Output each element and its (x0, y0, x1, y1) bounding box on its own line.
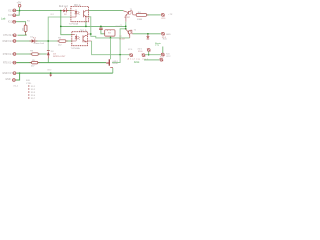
svg-text:T1: T1 (130, 9, 133, 11)
wire gnd vertical x110.5 (110, 38, 112, 59)
svg-text:RTS X1 4: RTS X1 4 (3, 63, 14, 65)
wire R4 to pin X2-1 (147, 14, 161, 16)
svg-text:X1 1: X1 1 (8, 10, 13, 12)
svg-text:D1: D1 (30, 37, 34, 39)
wire vertical x48.2 up to OK1A cathode (48, 17, 71, 50)
+5V supply symbol (17, 1, 22, 7)
connector pin X1-1 (8, 9, 16, 12)
zener diode D3 (vertical, between DSR row and RTS rail) (47, 51, 66, 63)
connector pin X1-2 (8, 20, 16, 23)
wire Q2 collector to pin X2-3 (133, 33, 161, 35)
svg-text:X2-4: X2-4 (31, 95, 36, 97)
resistor R4 (136, 12, 146, 21)
connector pin X2-1 (161, 14, 173, 20)
transistor Q1 (123, 9, 134, 22)
OK1B internal led (75, 34, 80, 40)
resistor R1 (vertical) (22, 21, 30, 32)
wire W1 to pin X2-2 (145, 54, 161, 56)
node junction x110.5/y37.9 (110, 37, 112, 39)
svg-text:F09: F09 (26, 80, 31, 82)
connector pin X1-5 (GND row) (2, 72, 16, 75)
svg-text:OK1 A: OK1 A (74, 4, 81, 7)
capacitor C1 (polarized) (99, 27, 105, 34)
node junction x60.8/y26.4 (60, 26, 62, 28)
svg-text:GND: GND (5, 79, 10, 81)
node junction x100.9/y26.4 (100, 26, 102, 28)
svg-text:X2 4: X2 4 (128, 49, 133, 51)
wire Q1 emitter down (120, 22, 126, 55)
buzzer SG1 box (105, 26, 121, 38)
led D2 red (59, 6, 68, 16)
svg-text:BZX55-C4V7: BZX55-C4V7 (53, 56, 66, 58)
connector pin X2-3 (161, 32, 171, 38)
OK1B pin stubs (72, 34, 92, 42)
svg-text:X2-3: X2-3 (31, 92, 36, 94)
wire pin X1-2 to R1 top (16, 22, 26, 25)
svg-text:BC557: BC557 (119, 38, 125, 40)
optocoupler OK1A box (69, 4, 89, 26)
connector pin X1-9 (5, 79, 18, 88)
svg-text:Green Led: Green Led (34, 42, 45, 45)
svg-text:SG: SG (108, 32, 111, 34)
ground symbol (virtual ground, rotated) (106, 59, 119, 65)
connector pin X1-8 (DSR row) (3, 40, 17, 43)
node junction x90.8/y34 (90, 33, 92, 35)
wire R2 to OK1B (66, 40, 72, 42)
wire top rail y10.6 (16, 9, 61, 11)
svg-text:X2-1: X2-1 (31, 86, 36, 88)
OK1A pin stubs (71, 10, 89, 22)
wire OK1A top out to Q1 base (89, 9, 124, 11)
svg-text:X1 6: X1 6 (8, 15, 13, 17)
connector pin X1-6 (8, 14, 16, 17)
wire DTR to R3 (16, 53, 32, 55)
legend row 4 (28, 94, 30, 96)
svg-text:GND X1 5: GND X1 5 (2, 73, 13, 75)
wire R3 to zener (38, 53, 47, 55)
wire GND row (16, 72, 113, 74)
svg-text:CTS X1 8: CTS X1 8 (3, 35, 14, 37)
svg-text:X2-2: X2-2 (31, 89, 36, 91)
svg-text:DTR X1 3: DTR X1 3 (3, 54, 14, 56)
svg-text:X2-7: X2-7 (160, 56, 165, 58)
node junction top rail (60, 10, 62, 12)
optocoupler OK1B box (71, 30, 88, 50)
svg-text:Lab: Lab (1, 16, 6, 20)
ground symbol GND2 (47, 69, 52, 77)
legend row 3 (28, 91, 30, 93)
connector pin X2-4 (cluster left) (128, 49, 133, 57)
wire OK1B emitter down (x91.6) to W1 (92, 41, 130, 55)
svg-text:+TX: +TX (168, 14, 173, 16)
resistor R2 (58, 38, 66, 47)
analog wire + pin X2-7 (128, 56, 166, 64)
svg-text:X1-1: X1-1 (13, 86, 18, 88)
wire +5V to junction (19, 7, 21, 11)
node junction x148.6/y54.7 (148, 54, 150, 56)
svg-text:+5V: +5V (17, 1, 22, 5)
svg-text:DSR X1 6: DSR X1 6 (3, 41, 14, 43)
svg-text:TLP504A: TLP504A (69, 23, 79, 26)
wire GND riser right to gnd bar (112, 68, 114, 73)
svg-text:BC557: BC557 (124, 17, 130, 19)
svg-text:330R: 330R (137, 19, 143, 21)
legend row 2 (28, 88, 30, 90)
wire D2 to OK1A (67, 10, 71, 12)
svg-text:4k7: 4k7 (31, 66, 35, 68)
svg-text:GND: GND (47, 69, 52, 71)
OK1B internal transistor (83, 35, 85, 42)
led D1 green (30, 37, 44, 46)
svg-text:OK1: OK1 (50, 14, 55, 16)
wire D1 to R2 (35, 40, 59, 42)
transistor Q2 (119, 29, 137, 40)
connector pin X1-7 (3, 34, 16, 37)
connector pin X2-2 (161, 53, 171, 58)
svg-text:X2-7: X2-7 (31, 98, 36, 99)
svg-text:R1: R1 (27, 21, 31, 23)
node junction x48.2/y41 (47, 40, 49, 42)
wire RTS rail (16, 62, 106, 64)
node junction x125.8/y26.4 (125, 26, 127, 28)
svg-text:X2-1: X2-1 (161, 18, 166, 20)
OK1A internal transistor (84, 10, 86, 17)
svg-text:D2: D2 (64, 14, 68, 16)
node junction x120.1/y54.7 (119, 54, 121, 56)
svg-text:2k2: 2k2 (58, 44, 62, 46)
node junction x85.9/y26.4 (85, 26, 87, 28)
wire net label riser to pin X2-2 (162, 47, 164, 54)
svg-text:R2: R2 (58, 38, 62, 40)
OK1A internal led (75, 10, 80, 16)
svg-text:R3: R3 (30, 51, 34, 53)
node junction x125.8/y28.8 (125, 28, 127, 30)
svg-text:T2: T2 (134, 30, 137, 32)
wire OK1A collector down right side (x90.8) (89, 17, 130, 38)
node junction GND mid (50, 72, 52, 74)
svg-text:OK1 B: OK1 B (80, 30, 87, 32)
resistor R5 (31, 60, 38, 68)
svg-text:TTY: TTY (155, 45, 160, 47)
ground symbol GND3 (146, 34, 149, 39)
wire pin9 riser (16, 73, 20, 80)
wire R1 bottom to pin X1-7 row (18, 32, 27, 36)
wire mid rail y26.4 (61, 11, 72, 35)
svg-text:RxD: RxD (163, 39, 168, 41)
node junction x147.9/y33.8 (147, 33, 149, 35)
svg-text:Red Led: Red Led (59, 6, 68, 8)
legend row 1 (28, 85, 30, 87)
legend row 5 (28, 97, 30, 99)
wire x120 down to rail stub (112, 55, 120, 63)
svg-text:X2-6: X2-6 (138, 51, 143, 53)
node junction A (+5V) (19, 10, 21, 12)
connector pin X1-3 (DTR row) (3, 53, 16, 56)
connector pin X2-5 (cluster mid) (142, 54, 146, 57)
node junction GND left (19, 72, 21, 74)
svg-text:X1 2: X1 2 (8, 22, 13, 24)
svg-text:D3: D3 (51, 51, 55, 53)
red component pin stubs (26, 11, 149, 63)
svg-text:X2 2: X2 2 (166, 56, 171, 58)
svg-text:SGND: SGND (112, 63, 118, 65)
connector pin X2-6 (top of cluster) (138, 49, 151, 55)
wire DSR row left part (16, 40, 31, 42)
svg-text:GND: GND (166, 34, 171, 36)
wire OK1A emitter down to mid rail (85, 22, 87, 27)
wire pin2 riser (16, 11, 19, 15)
svg-text:TLP504A: TLP504A (71, 47, 81, 50)
resistor R3 (30, 51, 38, 56)
connector pin X1-4 (RTS row) (3, 61, 16, 64)
svg-text:AOut: AOut (134, 61, 140, 64)
